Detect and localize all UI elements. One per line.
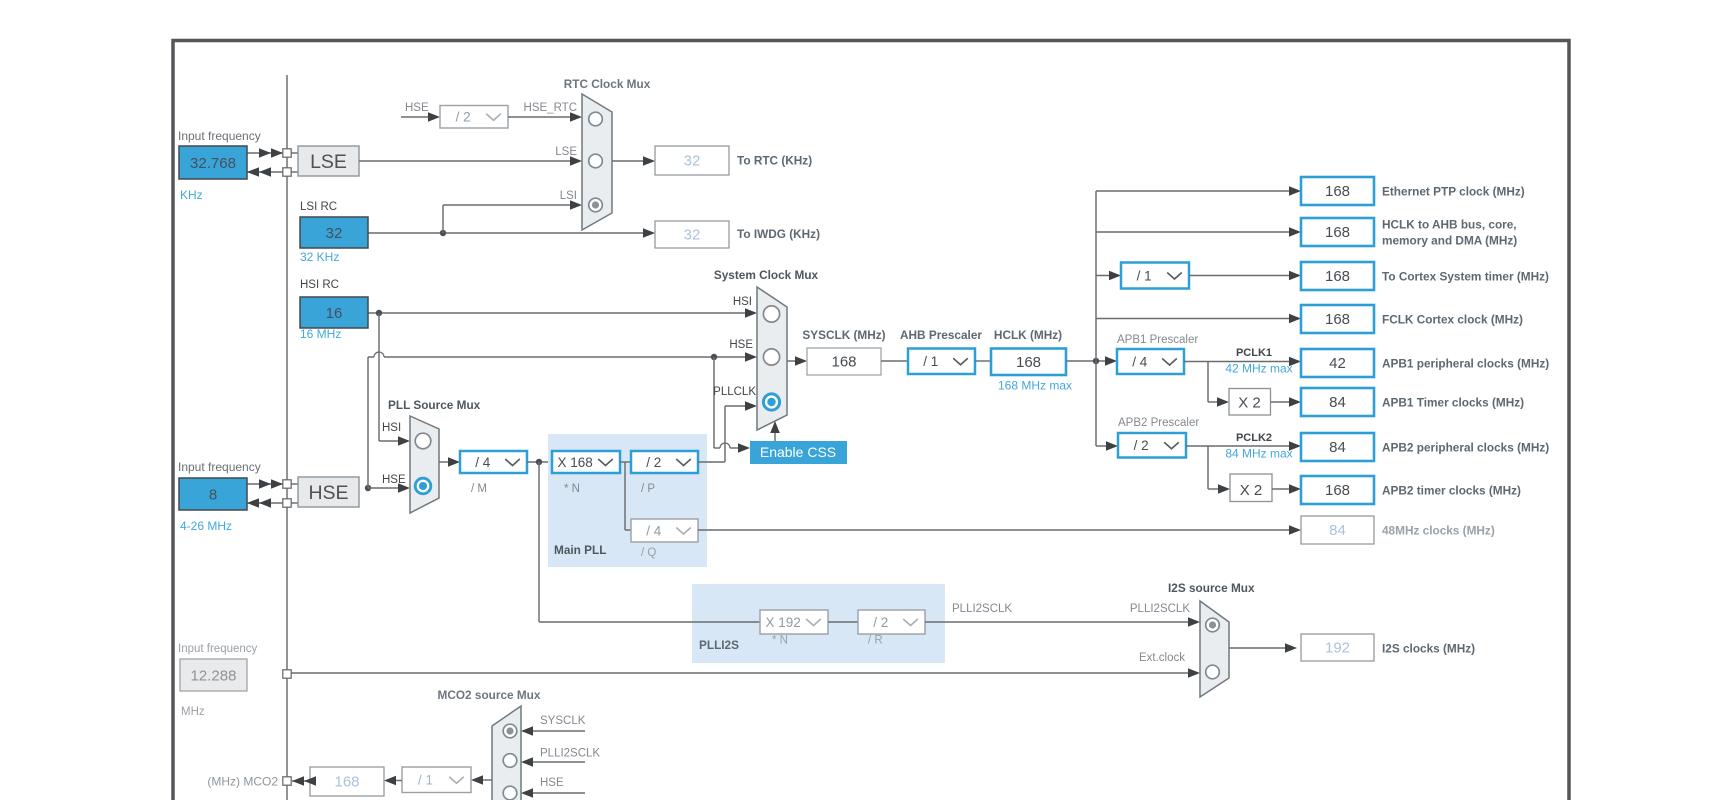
svg-text:42 MHz max: 42 MHz max	[1225, 362, 1292, 376]
svg-text:memory and DMA (MHz): memory and DMA (MHz)	[1382, 233, 1517, 247]
svg-text:HSE: HSE	[729, 339, 753, 351]
svg-text:168: 168	[1016, 354, 1041, 371]
svg-text:32: 32	[326, 225, 343, 242]
svg-text:Input frequency: Input frequency	[178, 643, 258, 655]
svg-text:HCLK to AHB bus, core,: HCLK to AHB bus, core,	[1382, 218, 1517, 232]
svg-text:PLLI2SCLK: PLLI2SCLK	[952, 603, 1012, 615]
svg-text:RTC Clock Mux: RTC Clock Mux	[564, 77, 651, 91]
svg-text:32: 32	[684, 227, 701, 244]
svg-text:168: 168	[1325, 268, 1350, 285]
svg-text:X 2: X 2	[1240, 482, 1263, 499]
svg-text:* N: * N	[772, 635, 788, 647]
svg-text:/ 2: / 2	[646, 455, 661, 470]
svg-text:SYSCLK: SYSCLK	[540, 715, 586, 727]
svg-text:/ P: / P	[641, 483, 655, 495]
svg-text:LSE: LSE	[555, 146, 577, 158]
svg-text:Ext.clock: Ext.clock	[1139, 652, 1185, 664]
svg-text:To Cortex System timer (MHz): To Cortex System timer (MHz)	[1382, 269, 1549, 283]
svg-text:/ 1: / 1	[1137, 268, 1152, 283]
svg-text:(MHz) MCO2: (MHz) MCO2	[207, 775, 278, 789]
svg-text:/ R: / R	[868, 635, 883, 647]
svg-text:Ethernet PTP clock (MHz): Ethernet PTP clock (MHz)	[1382, 184, 1525, 198]
svg-text:X 2: X 2	[1238, 395, 1261, 412]
svg-text:Input frequency: Input frequency	[178, 129, 261, 143]
svg-text:168: 168	[334, 774, 359, 791]
svg-text:PCLK1: PCLK1	[1236, 347, 1272, 359]
svg-text:To RTC (KHz): To RTC (KHz)	[737, 154, 812, 168]
svg-text:APB2 Prescaler: APB2 Prescaler	[1118, 417, 1199, 429]
svg-text:HSI: HSI	[382, 422, 401, 434]
svg-text:APB2 peripheral clocks (MHz): APB2 peripheral clocks (MHz)	[1382, 440, 1549, 454]
svg-text:/ 2: / 2	[1134, 438, 1149, 453]
svg-text:/ 1: / 1	[923, 354, 938, 369]
svg-text:HSE: HSE	[540, 777, 564, 789]
svg-text:/ 2: / 2	[456, 110, 471, 125]
svg-text:Enable CSS: Enable CSS	[760, 444, 836, 460]
svg-text:16 MHz: 16 MHz	[300, 327, 341, 341]
svg-text:HSE_RTC: HSE_RTC	[524, 102, 577, 114]
svg-text:HSE: HSE	[308, 482, 348, 504]
svg-text:Input frequency: Input frequency	[178, 460, 261, 474]
svg-text:/ 4: / 4	[1132, 354, 1148, 369]
svg-text:32.768: 32.768	[190, 155, 236, 172]
svg-text:HSE: HSE	[382, 474, 406, 486]
svg-text:12.288: 12.288	[191, 668, 237, 685]
svg-text:/ M: / M	[471, 483, 487, 495]
svg-text:HSI RC: HSI RC	[300, 279, 339, 291]
svg-text:FCLK Cortex clock (MHz): FCLK Cortex clock (MHz)	[1382, 312, 1523, 326]
svg-text:42: 42	[1329, 355, 1346, 372]
svg-text:168: 168	[1325, 183, 1350, 200]
svg-text:48MHz clocks (MHz): 48MHz clocks (MHz)	[1382, 523, 1495, 537]
svg-text:PLLCLK: PLLCLK	[713, 386, 756, 398]
svg-text:X 192: X 192	[765, 615, 800, 630]
svg-text:/ 2: / 2	[873, 615, 888, 630]
svg-text:HSE: HSE	[405, 102, 429, 114]
svg-text:168: 168	[1325, 311, 1350, 328]
svg-text:PCLK2: PCLK2	[1236, 432, 1272, 444]
svg-text:APB2 timer clocks (MHz): APB2 timer clocks (MHz)	[1382, 483, 1521, 497]
svg-text:32 KHz: 32 KHz	[300, 250, 339, 264]
svg-text:HSI: HSI	[733, 296, 752, 308]
svg-text:PLLI2SCLK: PLLI2SCLK	[1130, 603, 1190, 615]
svg-text:I2S source Mux: I2S source Mux	[1168, 581, 1255, 595]
svg-text:LSE: LSE	[310, 151, 347, 173]
svg-text:System Clock Mux: System Clock Mux	[714, 268, 819, 282]
svg-text:8: 8	[209, 486, 217, 503]
svg-text:4-26 MHz: 4-26 MHz	[180, 519, 232, 533]
svg-text:84: 84	[1329, 439, 1346, 456]
svg-text:84: 84	[1329, 522, 1346, 539]
svg-text:/ Q: / Q	[641, 547, 656, 559]
svg-text:/ 1: / 1	[418, 773, 433, 788]
svg-text:APB1 Prescaler: APB1 Prescaler	[1117, 334, 1198, 346]
svg-text:84: 84	[1329, 394, 1346, 411]
svg-text:168: 168	[1325, 224, 1350, 241]
svg-text:PLLI2SCLK: PLLI2SCLK	[540, 748, 600, 760]
svg-text:168 MHz max: 168 MHz max	[998, 379, 1072, 393]
svg-text:168: 168	[1325, 482, 1350, 499]
svg-text:To IWDG (KHz): To IWDG (KHz)	[737, 227, 820, 241]
svg-text:APB1 Timer clocks (MHz): APB1 Timer clocks (MHz)	[1382, 395, 1524, 409]
svg-text:PLLI2S: PLLI2S	[699, 638, 739, 652]
svg-text:AHB Prescaler: AHB Prescaler	[900, 328, 982, 342]
svg-text:MCO2 source Mux: MCO2 source Mux	[438, 688, 541, 702]
svg-text:192: 192	[1325, 640, 1350, 657]
svg-text:SYSCLK (MHz): SYSCLK (MHz)	[802, 328, 885, 342]
svg-text:16: 16	[326, 305, 343, 322]
svg-text:32: 32	[684, 153, 701, 170]
svg-text:X 168: X 168	[557, 455, 592, 470]
svg-text:168: 168	[831, 354, 856, 371]
svg-text:/ 4: / 4	[475, 455, 491, 470]
svg-text:PLL Source Mux: PLL Source Mux	[388, 398, 481, 412]
svg-text:LSI: LSI	[560, 190, 577, 202]
svg-text:I2S clocks (MHz): I2S clocks (MHz)	[1382, 642, 1475, 656]
svg-text:* N: * N	[564, 483, 580, 495]
svg-text:LSI RC: LSI RC	[300, 201, 337, 213]
svg-text:84 MHz max: 84 MHz max	[1225, 447, 1292, 461]
svg-text:Main PLL: Main PLL	[554, 543, 606, 557]
svg-text:MHz: MHz	[181, 706, 205, 718]
svg-text:HCLK (MHz): HCLK (MHz)	[994, 328, 1062, 342]
svg-text:APB1 peripheral clocks (MHz): APB1 peripheral clocks (MHz)	[1382, 356, 1549, 370]
svg-text:KHz: KHz	[180, 188, 203, 202]
svg-text:/ 4: / 4	[646, 523, 662, 538]
